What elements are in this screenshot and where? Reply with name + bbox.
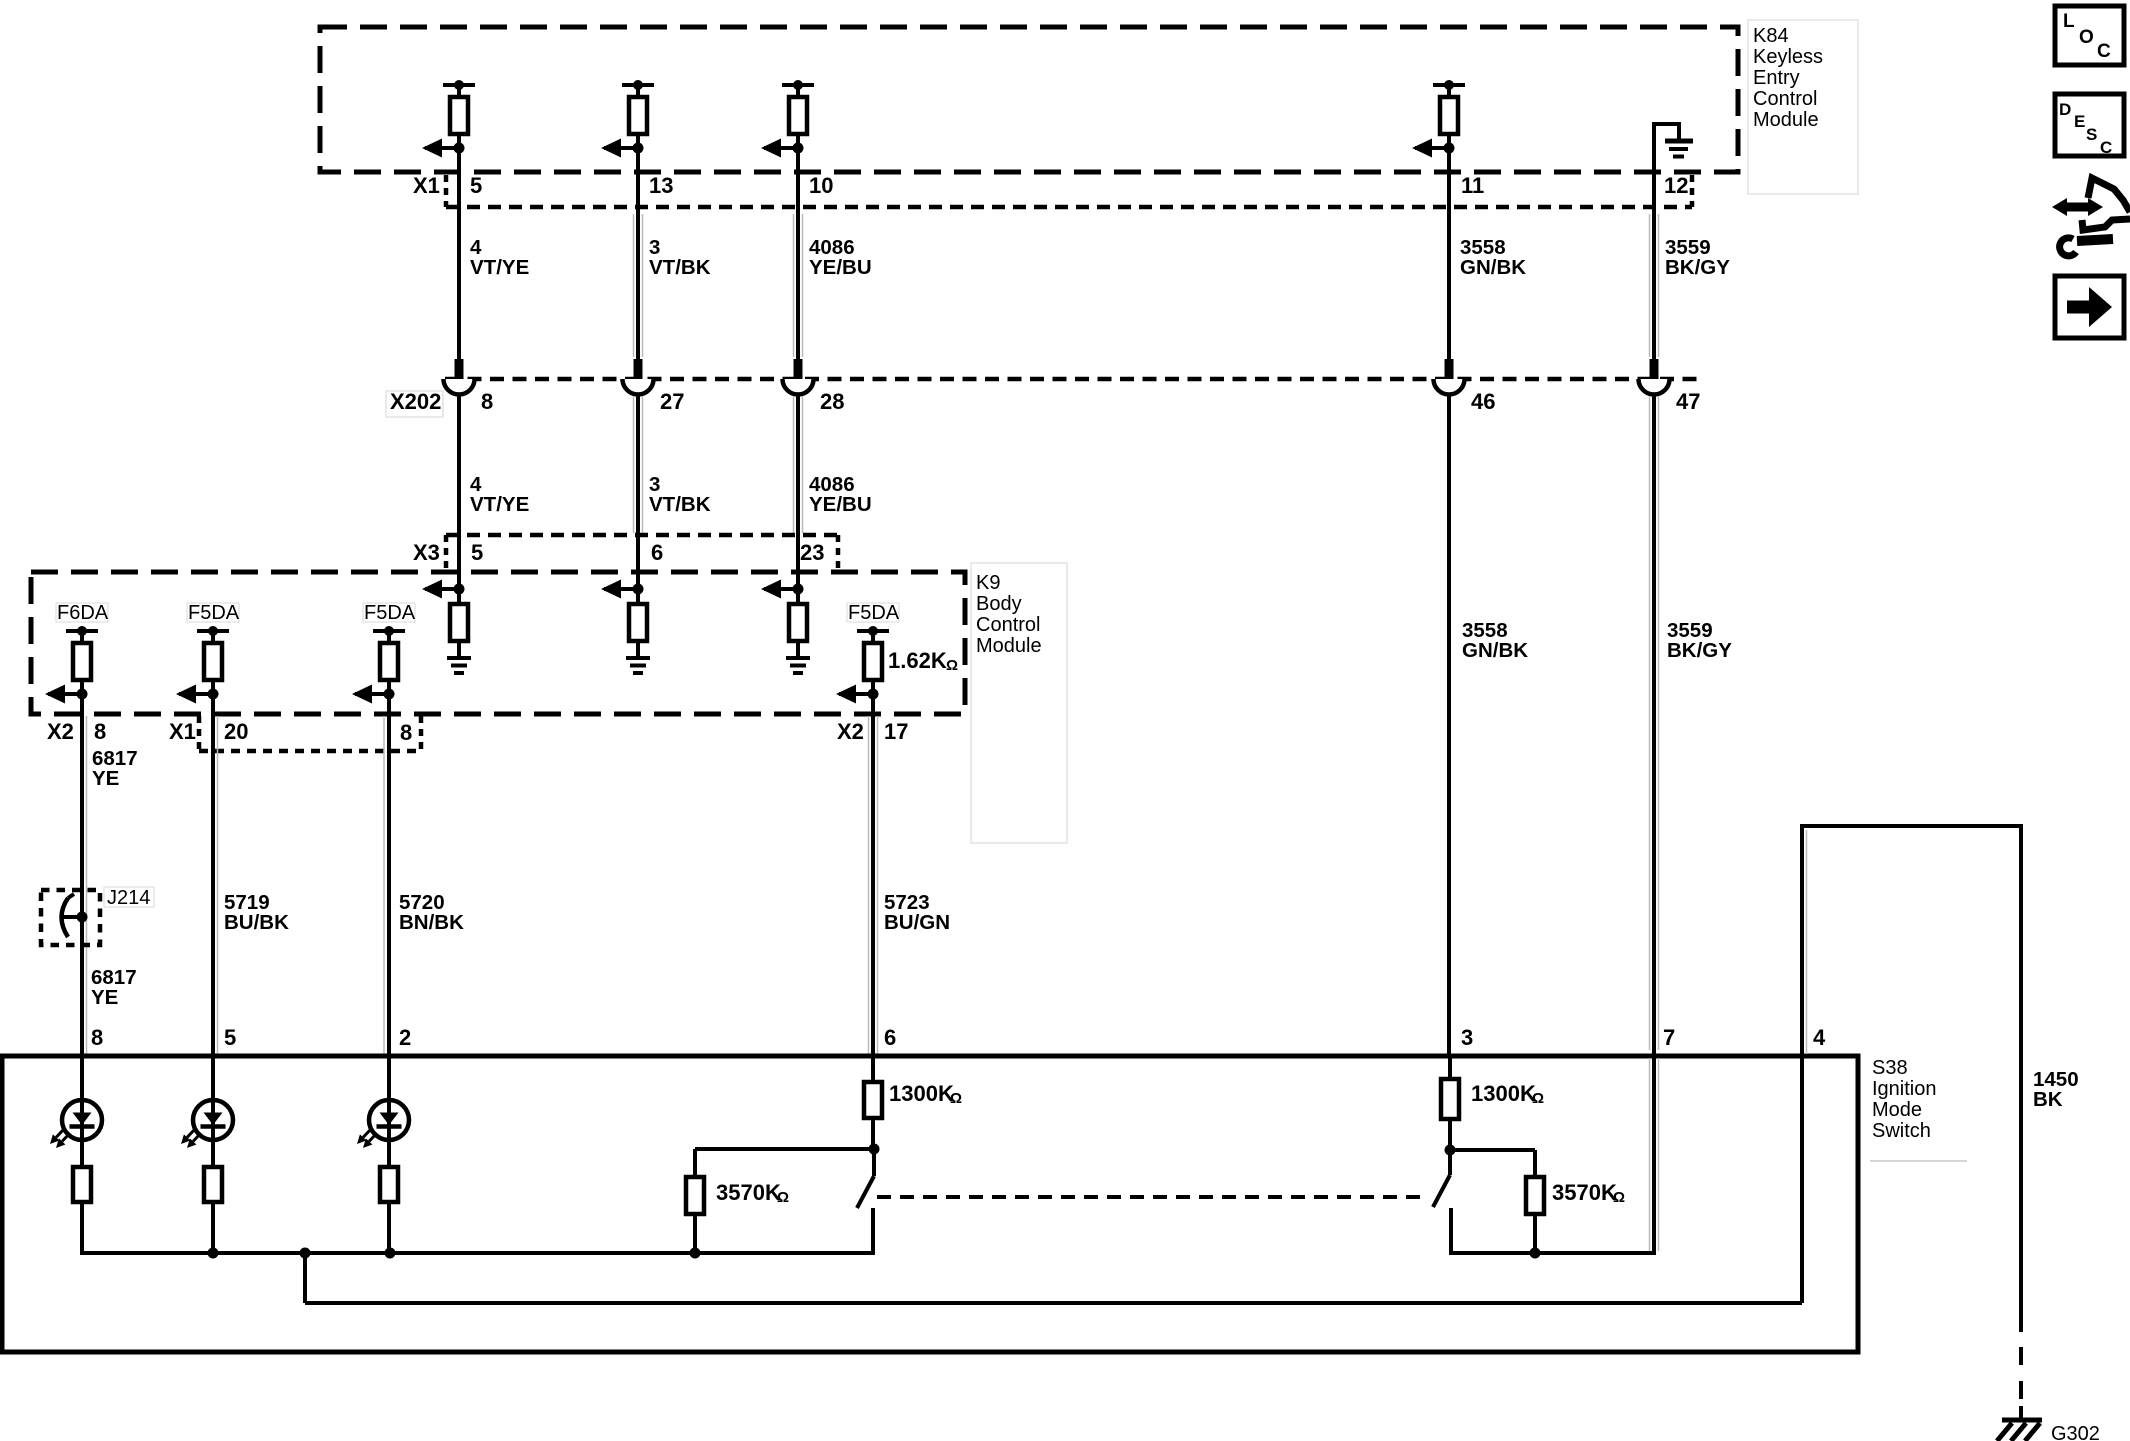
mechanical link (dashed) between switches — [877, 1195, 1427, 1199]
X202 socket pin 46 — [1434, 359, 1496, 414]
wire 4 VT/YE (X202 to X3) — [457, 394, 461, 537]
LED 1 series resistor — [73, 1167, 91, 1255]
label 3 VT/BK — [649, 236, 711, 279]
LED 3 — [357, 1056, 409, 1170]
K84 internal resistor leg (pin 13) — [601, 80, 654, 158]
svg-text:1300K: 1300K — [1471, 1081, 1536, 1106]
svg-text:13: 13 — [649, 173, 673, 198]
connector X2 pin 8 (K9 left) — [47, 719, 106, 744]
wire 5719 BU/BK (K9 X1:20 to S38 pin 5) — [213, 714, 218, 1056]
label 4 VT/YE — [470, 473, 529, 516]
svg-text:8: 8 — [94, 719, 106, 744]
svg-text:BK/GY: BK/GY — [1665, 256, 1730, 279]
svg-text:Ω: Ω — [777, 1189, 789, 1206]
svg-text:F5DA: F5DA — [848, 602, 900, 624]
svg-text:G302: G302 — [2051, 1423, 2100, 1441]
icon harness/wrench — [2052, 178, 2130, 256]
svg-text:23: 23 — [800, 540, 824, 565]
svg-text:1300K: 1300K — [889, 1081, 954, 1106]
svg-text:F5DA: F5DA — [364, 602, 416, 624]
svg-text:Ω: Ω — [1613, 1189, 1625, 1206]
label 1300K ohm (right) — [1471, 1081, 1544, 1107]
wire 3559 BK/GY (K84 to X202) — [1650, 122, 1659, 360]
K9 internal resistor+ground leg (from X3 pin 23) — [761, 537, 810, 673]
X202 socket pin 27 — [623, 359, 685, 414]
resistor 1300K (left) — [864, 1056, 882, 1151]
svg-text:8: 8 — [481, 389, 493, 414]
svg-text:BK/GY: BK/GY — [1667, 639, 1732, 662]
S38 label — [1870, 1057, 1967, 1161]
svg-text:Body: Body — [976, 593, 1022, 615]
svg-text:GN/BK: GN/BK — [1462, 639, 1528, 662]
LED 3 series resistor — [380, 1167, 398, 1255]
svg-text:6: 6 — [884, 1025, 896, 1050]
K9 label — [971, 563, 1067, 843]
svg-text:Mode: Mode — [1872, 1099, 1922, 1121]
label 4086 YE/BU — [809, 236, 872, 279]
svg-text:17: 17 — [884, 719, 908, 744]
svg-text:Ω: Ω — [946, 657, 958, 674]
svg-text:5: 5 — [224, 1025, 236, 1050]
svg-text:S38: S38 — [1872, 1057, 1908, 1079]
tee wire to pin 4 path — [305, 1253, 1802, 1303]
bus wire (LED commons) — [82, 1248, 873, 1259]
label 5723 BU/GN — [884, 891, 950, 934]
svg-text:K84: K84 — [1753, 25, 1789, 47]
wire 6817 YE (K9 X2:8 to S38 pin 8) — [82, 714, 87, 1056]
X202 socket pin 8 — [444, 359, 494, 414]
K9 internal resistor+ground leg (from X3 pin 6) — [601, 537, 650, 673]
svg-text:3570K: 3570K — [1552, 1180, 1617, 1205]
svg-text:VT/BK: VT/BK — [649, 256, 711, 279]
svg-text:27: 27 — [660, 389, 684, 414]
wire 3559 BK/GY (X202 to S38) — [1650, 394, 1659, 1056]
K9 internal resistor+ground leg (from X3 pin 5) — [422, 537, 471, 673]
resistor 3570K (left) — [686, 1149, 874, 1255]
resistor 3570K (right) — [1452, 1150, 1544, 1255]
wire 5723 BU/GN (K9 X2:17 to S38 pin 6) — [869, 714, 878, 1056]
svg-text:Ω: Ω — [950, 1090, 962, 1107]
wire 4 VT/YE (K84 to X202) — [457, 148, 461, 360]
wire 3558 GN/BK (K84 to X202) — [1447, 148, 1451, 360]
svg-text:F5DA: F5DA — [188, 602, 240, 624]
LED 1 — [50, 1056, 102, 1170]
label 6817 YE (upper) — [92, 747, 138, 790]
K9 internal leg F5DA (x=389) — [352, 602, 416, 716]
svg-text:YE: YE — [92, 767, 119, 790]
connector X1 pins 20,8 (K9) — [169, 716, 421, 751]
svg-text:2: 2 — [399, 1025, 411, 1050]
svg-text:VT/YE: VT/YE — [470, 256, 529, 279]
switch S38 Ignition Mode Switch box — [2, 1056, 1858, 1352]
icon arrow box — [2055, 276, 2124, 338]
wire 1450 BK vertical — [2019, 826, 2023, 1332]
resistor 1300K (right) — [1441, 1056, 1459, 1152]
wire 1450 BK top link — [1800, 824, 2023, 828]
svg-text:VT/YE: VT/YE — [470, 493, 529, 516]
connector X1 (K84) — [413, 173, 1692, 207]
svg-text:Entry: Entry — [1753, 67, 1800, 89]
svg-text:D: D — [2059, 100, 2071, 119]
svg-text:46: 46 — [1471, 389, 1495, 414]
svg-text:Ω: Ω — [1532, 1090, 1544, 1107]
svg-text:F6DA: F6DA — [57, 602, 109, 624]
label 3559 BK/GY — [1665, 236, 1730, 279]
X202 socket pin 28 — [783, 359, 845, 414]
K9 internal leg F5DA (x=873) — [836, 602, 900, 716]
label 3570K ohm (right) — [1552, 1180, 1625, 1206]
label 3570K ohm (left) — [716, 1180, 789, 1206]
label 3559 BK/GY — [1667, 619, 1732, 662]
K84 internal resistor leg (pin 5) — [422, 80, 475, 158]
svg-text:X2: X2 — [837, 719, 864, 744]
bottom wire right group — [1449, 1248, 1656, 1259]
svg-text:6: 6 — [651, 540, 663, 565]
icon LOC box — [2055, 6, 2124, 65]
svg-text:X1: X1 — [169, 719, 196, 744]
svg-text:X1: X1 — [413, 173, 440, 198]
svg-text:Module: Module — [1753, 109, 1819, 131]
svg-text:5: 5 — [470, 173, 482, 198]
wire 3 VT/BK (X202 to X3) — [634, 394, 643, 537]
svg-text:8: 8 — [400, 720, 412, 745]
label 5719 BU/BK — [224, 891, 289, 934]
svg-text:E: E — [2074, 112, 2085, 131]
wire pin 4 vertical — [1802, 826, 1807, 1303]
connector X202 — [386, 379, 1697, 417]
resistor value 1.62K ohm — [888, 648, 958, 674]
wire 3 VT/BK (K84 to X202) — [634, 148, 643, 360]
K9 internal leg F6DA (x=82) — [45, 602, 109, 716]
K84 label — [1748, 20, 1858, 194]
svg-text:O: O — [2079, 27, 2094, 48]
svg-text:12: 12 — [1664, 173, 1688, 198]
label 6817 YE (lower) — [91, 966, 137, 1009]
wire 4086 YE/BU (X202 to X3) — [794, 394, 803, 537]
svg-text:YE/BU: YE/BU — [809, 256, 872, 279]
svg-text:X2: X2 — [47, 719, 74, 744]
icon DESC box — [2055, 94, 2124, 157]
wire 3558 GN/BK (X202 to S38) — [1447, 394, 1451, 1056]
svg-text:3: 3 — [1461, 1025, 1473, 1050]
svg-text:C: C — [2097, 41, 2111, 62]
label 4 VT/YE — [470, 236, 529, 279]
label 1300K ohm (left) — [889, 1081, 962, 1107]
K84 internal resistor leg (pin 11) — [1412, 80, 1465, 158]
connector X3 (K9) — [413, 535, 838, 570]
X202 socket pin 47 — [1639, 359, 1701, 414]
label 5720 BN/BK — [399, 891, 464, 934]
svg-text:X202: X202 — [390, 389, 441, 414]
LED 2 — [181, 1056, 233, 1170]
ground G302 — [1997, 1406, 2042, 1441]
label 3 VT/BK — [649, 473, 711, 516]
label 4086 YE/BU — [809, 473, 872, 516]
svg-text:BU/BK: BU/BK — [224, 911, 289, 934]
svg-text:4: 4 — [1813, 1025, 1826, 1050]
switch lever (right) — [1433, 1145, 1456, 1256]
wire 4086 YE/BU (K84 to X202) — [794, 148, 803, 360]
svg-text:C: C — [2100, 138, 2112, 157]
module K9 Body Control Module box — [31, 572, 965, 714]
svg-text:11: 11 — [1461, 173, 1484, 198]
LED 2 series resistor — [204, 1167, 222, 1255]
svg-text:Control: Control — [976, 614, 1040, 636]
svg-text:Module: Module — [976, 635, 1042, 657]
switch lever (left) — [857, 1144, 880, 1256]
svg-text:8: 8 — [91, 1025, 103, 1050]
svg-text:BK: BK — [2033, 1088, 2063, 1111]
svg-text:K9: K9 — [976, 572, 1000, 594]
label 3558 GN/BK — [1462, 619, 1528, 662]
label 1450 BK — [2033, 1068, 2079, 1111]
svg-text:GN/BK: GN/BK — [1460, 256, 1526, 279]
connector X2 pin 17 (K9 right) — [837, 719, 908, 744]
K9 internal leg F5DA (x=213) — [176, 602, 240, 716]
svg-text:YE: YE — [91, 986, 118, 1009]
wire 5720 BN/BK (K9 X1:8 to S38 pin 2) — [384, 714, 389, 1056]
svg-text:47: 47 — [1676, 389, 1700, 414]
svg-text:YE/BU: YE/BU — [809, 493, 872, 516]
svg-text:BN/BK: BN/BK — [399, 911, 464, 934]
svg-text:VT/BK: VT/BK — [649, 493, 711, 516]
svg-text:BU/GN: BU/GN — [884, 911, 950, 934]
splice J214 — [41, 890, 100, 945]
svg-text:28: 28 — [820, 389, 844, 414]
svg-text:Switch: Switch — [1872, 1120, 1931, 1142]
J214 label — [104, 887, 154, 909]
svg-text:5: 5 — [471, 540, 483, 565]
K84 internal ground (pin 12) — [1652, 122, 1693, 176]
svg-text:7: 7 — [1663, 1025, 1675, 1050]
svg-text:X3: X3 — [413, 540, 440, 565]
svg-text:Ignition: Ignition — [1872, 1078, 1937, 1100]
svg-text:Keyless: Keyless — [1753, 46, 1823, 68]
svg-text:1.62K: 1.62K — [888, 648, 947, 673]
svg-text:S: S — [2086, 125, 2097, 144]
svg-text:L: L — [2063, 11, 2075, 32]
svg-text:J214: J214 — [107, 887, 150, 909]
svg-text:20: 20 — [224, 719, 248, 744]
wire 1450 BK dashed tail — [2019, 1347, 2023, 1412]
wire from pin 7 down — [1650, 1056, 1659, 1253]
label 3558 GN/BK — [1460, 236, 1526, 279]
K84 internal resistor leg (pin 10) — [761, 80, 814, 158]
svg-text:Control: Control — [1753, 88, 1817, 110]
svg-text:10: 10 — [809, 173, 833, 198]
module K84 Keyless Entry Control Module box — [320, 27, 1738, 172]
svg-text:3570K: 3570K — [716, 1180, 781, 1205]
